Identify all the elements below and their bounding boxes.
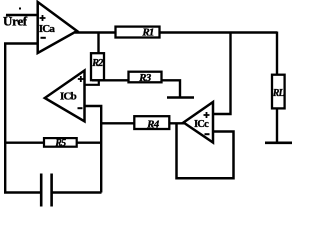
resistor R2 (91, 53, 104, 80)
wire R4 row (101, 122, 184, 124)
svg-text:R2: R2 (91, 58, 104, 69)
wire ICc + input to top rail (213, 33, 231, 114)
wire drop to RL (276, 32, 278, 77)
resistor R3 (129, 72, 162, 85)
svg-text:R3: R3 (138, 72, 152, 84)
svg-text:R5: R5 (54, 138, 66, 149)
wire ICb - input to middle bus (84, 106, 101, 193)
wire ICc feedback loop output to - input (177, 123, 234, 178)
wire R2 bottom to R3 (92, 79, 129, 81)
wire ICa output top rail (75, 31, 277, 34)
svg-text:RL: RL (272, 88, 285, 99)
op-amp ICc (184, 102, 214, 143)
resistor R5 (44, 138, 77, 149)
svg-text:R4: R4 (146, 118, 160, 130)
capacitor C1 left plate (40, 174, 43, 207)
wire drop to R2 (97, 33, 99, 56)
resistor R4 (134, 116, 169, 130)
ground G2 (265, 142, 292, 145)
node stray dot (19, 8, 21, 10)
op-amp ICa (38, 2, 77, 53)
capacitor C1 right plate (50, 174, 53, 207)
wire R5 row (5, 141, 102, 143)
wire ICb + input (84, 80, 99, 85)
wire RL to ground (276, 107, 278, 142)
svg-text:ICb: ICb (60, 91, 77, 103)
op-amp ICb (45, 71, 85, 122)
wire R3 to ground (161, 80, 181, 96)
resistor RL (272, 75, 285, 109)
wire capacitor right plate to middle bus (52, 191, 102, 193)
svg-text:Ūref: Ūref (3, 14, 28, 29)
ground G1 (167, 96, 194, 99)
svg-text:ICc: ICc (194, 119, 209, 130)
svg-text:R1: R1 (141, 27, 154, 39)
wire Uref input to ICa + (6, 14, 39, 16)
wire left bus (ICa inverting input down to bottom rail and capacitor) (5, 44, 40, 193)
resistor R1 (116, 27, 160, 39)
svg-text:ICa: ICa (39, 23, 56, 35)
